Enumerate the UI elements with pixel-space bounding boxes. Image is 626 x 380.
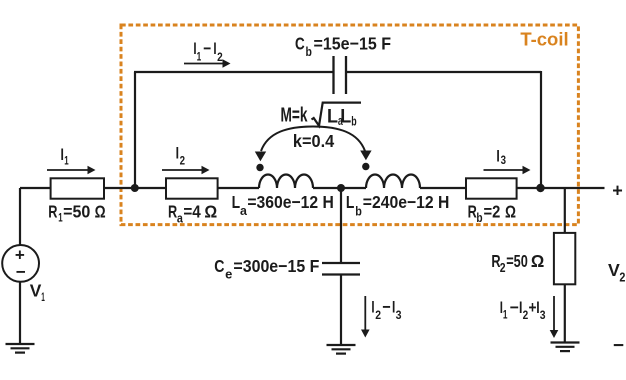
label I1-I2 [193, 39, 222, 64]
svg-text:L: L [346, 192, 355, 212]
svg-text:C: C [295, 33, 305, 53]
svg-text:2: 2 [619, 271, 625, 285]
capacitor Cb plates [334, 56, 347, 94]
ground (R2) [551, 343, 580, 352]
svg-text:+: + [612, 181, 623, 201]
svg-text:Ω: Ω [531, 251, 544, 271]
svg-text:M=k: M=k [281, 105, 309, 127]
label Lb=240e-12 H [346, 192, 450, 219]
label I1-I2+I3 [500, 298, 546, 322]
svg-text:1: 1 [41, 290, 45, 304]
svg-text:−: − [382, 297, 390, 316]
wire Lb to Rb [420, 187, 465, 189]
svg-text:3: 3 [396, 310, 402, 322]
wire Rb to + terminal [517, 187, 605, 189]
inductor Lb [366, 175, 420, 189]
label I2-I3 [371, 297, 401, 322]
svg-text:=240e−12 H: =240e−12 H [363, 192, 450, 212]
wire node B down to Ce [340, 188, 342, 263]
wire La to node B [313, 187, 341, 189]
wire R2 branch top [564, 188, 566, 232]
svg-text:L: L [340, 106, 351, 127]
svg-text:−: − [613, 336, 624, 357]
wire V1 bottom [19, 282, 21, 345]
label Ce=300e-15 F [214, 256, 319, 281]
label Cb=15e-15 F [295, 33, 391, 59]
label V1 [30, 280, 45, 304]
ground (V1) [6, 344, 35, 353]
inductor La [259, 175, 313, 189]
current arrow I3 [484, 166, 531, 175]
svg-text:I: I [496, 147, 499, 166]
svg-text:2: 2 [523, 310, 529, 322]
coupling dot Lb [362, 163, 369, 170]
svg-text:2: 2 [217, 52, 223, 64]
resistor Rb [466, 178, 517, 198]
svg-text:+: + [15, 245, 25, 264]
svg-text:Ω: Ω [505, 202, 516, 222]
wire R1 to Ra [104, 187, 165, 189]
current arrow I1 [47, 166, 96, 175]
label V2 [608, 260, 625, 285]
svg-text:2: 2 [375, 310, 381, 322]
svg-text:=2: =2 [484, 202, 501, 222]
ground (Ce) [327, 345, 356, 354]
svg-text:−: − [510, 298, 519, 317]
svg-text:−: − [203, 39, 211, 58]
label I2 [176, 143, 185, 167]
node A dot [131, 184, 139, 192]
svg-text:b: b [306, 45, 313, 59]
mutual coupling arc [261, 127, 365, 152]
svg-text:L: L [327, 106, 338, 127]
wire node A up [134, 72, 136, 188]
node C dot (right) [536, 184, 544, 192]
current arrow I1-I2 (top) [184, 59, 231, 68]
svg-text:b: b [351, 115, 357, 129]
svg-text:I: I [371, 297, 374, 316]
svg-text:=360e−12 H: =360e−12 H [247, 192, 333, 212]
coupling dot La [256, 164, 263, 171]
wire top right corner down [540, 71, 542, 188]
current arrow I2 [162, 166, 210, 175]
wire V1 top [19, 188, 21, 246]
svg-text:V: V [30, 280, 42, 300]
coupling arrowhead right [360, 151, 371, 161]
svg-text:V: V [608, 260, 620, 280]
current arrow I1-I2+I3 (down) [550, 296, 559, 338]
coupling arrowhead left [255, 152, 266, 162]
wire Cb to top right corner [346, 71, 541, 73]
svg-text:1: 1 [197, 51, 202, 63]
svg-text:=300e−15 F: =300e−15 F [233, 256, 319, 276]
svg-text:1: 1 [503, 309, 508, 321]
label I1 [61, 145, 70, 168]
svg-text:Ω: Ω [204, 202, 217, 222]
svg-text:T-coil: T-coil [520, 29, 568, 49]
svg-text:b: b [355, 205, 362, 219]
wire main left [20, 187, 50, 189]
resistor Ra [166, 178, 218, 198]
resistor R1 [51, 178, 104, 198]
label M=k sqrt(LaLb) [281, 103, 362, 129]
svg-text:3: 3 [540, 310, 546, 322]
label Rb=2 [468, 202, 516, 225]
wire R2 bottom to ground [564, 285, 566, 343]
radical sign [312, 103, 362, 126]
label Ra=4 [168, 202, 217, 226]
label R2=50 [491, 251, 544, 275]
wire Ce to ground [340, 275, 342, 346]
label La=360e-12 H [232, 192, 334, 218]
svg-text:k=0.4: k=0.4 [293, 131, 335, 151]
resistor R2 [554, 233, 575, 284]
node B dot (center) [337, 184, 345, 192]
svg-text:=4: =4 [183, 202, 201, 222]
voltage source V1 [2, 245, 39, 282]
wire node B to Lb [341, 187, 366, 189]
label I3 [496, 147, 506, 168]
svg-text:R: R [48, 202, 57, 222]
svg-text:e: e [225, 267, 232, 281]
svg-text:=50: =50 [63, 202, 90, 222]
label R1=50 [48, 202, 105, 225]
wire top to Cb [134, 71, 334, 73]
svg-text:2: 2 [180, 156, 185, 168]
svg-text:Ω: Ω [95, 202, 106, 222]
wire Ra to La [218, 187, 259, 189]
current arrow I2-I3 (down) [361, 296, 370, 338]
svg-text:3: 3 [501, 155, 506, 167]
svg-text:b: b [476, 211, 482, 225]
svg-text:−: − [16, 263, 26, 282]
svg-text:C: C [214, 256, 224, 276]
capacitor Ce plates [322, 263, 360, 275]
svg-text:=15e−15 F: =15e−15 F [314, 33, 392, 53]
svg-text:2: 2 [500, 261, 506, 275]
svg-text:1: 1 [64, 156, 69, 168]
svg-text:I: I [176, 143, 179, 162]
T-coil dashed boundary box [121, 25, 578, 225]
svg-text:=50: =50 [506, 251, 528, 271]
